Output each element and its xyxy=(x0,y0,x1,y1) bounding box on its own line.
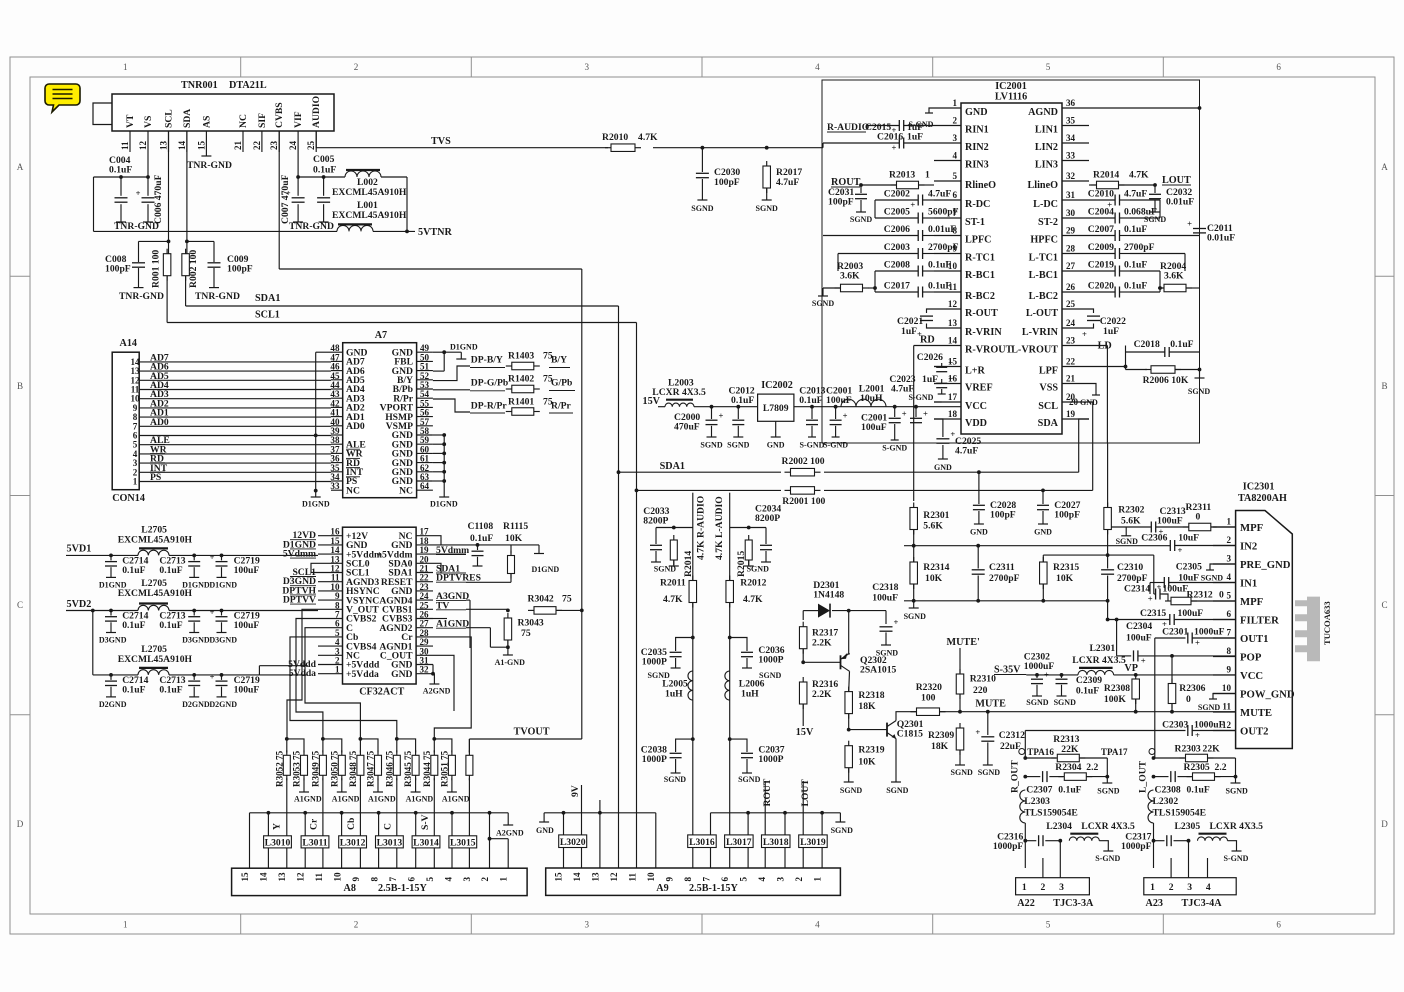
svg-text:DTA21L: DTA21L xyxy=(229,80,267,91)
A7 pin 64 NC xyxy=(417,489,433,491)
svg-text:POP: POP xyxy=(1240,651,1262,663)
net L-AUDIO column xyxy=(729,493,731,581)
svg-text:10: 10 xyxy=(646,872,656,882)
svg-text:A1GND: A1GND xyxy=(368,795,396,804)
wire SCL1 down to A9 pin11 xyxy=(636,490,638,868)
ground SGND on C2313 wire xyxy=(1125,527,1127,536)
svg-text:15: 15 xyxy=(196,140,206,150)
IC2001 pin 23 L-VROUT xyxy=(1062,345,1089,347)
capacitor C2011 0.01uF on right rail xyxy=(1193,228,1206,230)
A7 pin 37 WR xyxy=(331,452,343,454)
svg-text:SDA1: SDA1 xyxy=(660,461,685,472)
svg-text:R2301: R2301 xyxy=(923,510,949,521)
svg-text:+: + xyxy=(136,188,141,198)
resistor R3048 75 xyxy=(359,750,361,755)
svg-text:LOUT: LOUT xyxy=(1162,175,1191,186)
svg-text:9: 9 xyxy=(664,877,674,882)
capacitor C2312 22uF xyxy=(986,710,990,714)
svg-text:TLS159054E: TLS159054E xyxy=(1153,808,1207,819)
A7 pin 42 AD2 xyxy=(331,406,343,408)
svg-text:L-VROUT: L-VROUT xyxy=(1011,345,1058,356)
ground GND at A9 xyxy=(543,813,545,822)
svg-text:100uF: 100uF xyxy=(861,422,887,433)
svg-text:32: 32 xyxy=(1066,171,1076,181)
IC2001 pin 16 VREF xyxy=(934,383,961,385)
svg-text:6: 6 xyxy=(406,877,416,882)
svg-text:MPF: MPF xyxy=(1240,596,1264,608)
svg-text:A23: A23 xyxy=(1146,898,1164,909)
svg-text:SGND: SGND xyxy=(700,441,722,450)
svg-text:TUCOA633: TUCOA633 xyxy=(1322,601,1332,645)
svg-text:22: 22 xyxy=(1066,357,1076,367)
IC2001 pin 9 R-TC1 xyxy=(934,253,961,255)
svg-text:R3042: R3042 xyxy=(528,594,554,605)
svg-text:2: 2 xyxy=(354,920,359,930)
svg-text:1uF: 1uF xyxy=(907,132,923,143)
svg-text:13: 13 xyxy=(159,140,169,150)
CF32ACT pin 29 AGND1 xyxy=(416,645,433,647)
svg-text:5: 5 xyxy=(425,877,435,882)
svg-text:LCXR 4X3.5: LCXR 4X3.5 xyxy=(1210,821,1264,832)
svg-text:10K: 10K xyxy=(505,533,523,544)
svg-text:L3010: L3010 xyxy=(265,837,291,848)
svg-text:6: 6 xyxy=(1276,62,1281,72)
svg-text:C2312: C2312 xyxy=(999,730,1025,741)
svg-text:AUDIO: AUDIO xyxy=(311,95,322,128)
svg-text:R-VRIN: R-VRIN xyxy=(965,327,1002,338)
svg-text:R2306: R2306 xyxy=(1179,683,1205,694)
A7 pin 46 AD6 xyxy=(331,370,343,372)
capacitor C2032 0.01uF xyxy=(1154,185,1156,193)
svg-text:2700pF: 2700pF xyxy=(928,242,959,253)
CF32ACT pin 26 CVBS3 xyxy=(416,618,433,620)
filter L3020 xyxy=(559,835,587,848)
svg-text:0.1uF: 0.1uF xyxy=(1124,260,1147,271)
svg-text:R2012: R2012 xyxy=(740,578,766,589)
svg-text:L3012: L3012 xyxy=(340,837,366,848)
CF32ACT pin 28 Cr xyxy=(416,636,433,638)
svg-text:1uF: 1uF xyxy=(1103,326,1119,337)
CF32ACT pin 11 AGND3 xyxy=(318,581,343,583)
svg-text:5: 5 xyxy=(1226,591,1231,601)
svg-text:5.6K: 5.6K xyxy=(923,521,943,532)
svg-text:R3046 75: R3046 75 xyxy=(384,750,394,787)
svg-text:2.5B-1-15Y: 2.5B-1-15Y xyxy=(689,883,738,894)
svg-text:TNR-GND: TNR-GND xyxy=(195,291,240,302)
svg-text:SGND: SGND xyxy=(886,786,908,795)
svg-text:R-VROUT: R-VROUT xyxy=(965,345,1013,356)
wire A9 pin13 stub up xyxy=(599,800,601,813)
svg-text:R-OUT: R-OUT xyxy=(965,308,998,319)
svg-text:+: + xyxy=(910,200,915,210)
svg-text:L_OUT: L_OUT xyxy=(1138,760,1149,793)
capacitor C2719 100uF xyxy=(221,555,223,560)
IC2001 pin 30 ST-2 xyxy=(1062,217,1089,219)
svg-text:TLS159054E: TLS159054E xyxy=(1024,808,1078,819)
svg-text:+: + xyxy=(1178,545,1183,555)
svg-text:10K: 10K xyxy=(1056,573,1074,584)
svg-text:C2006: C2006 xyxy=(884,224,910,235)
svg-text:S-V: S-V xyxy=(420,814,431,830)
IC2001 pin 7 ST-1 xyxy=(934,217,961,219)
IC2301 pin 5 MPF xyxy=(1213,600,1236,602)
svg-text:10K: 10K xyxy=(925,573,943,584)
svg-text:4: 4 xyxy=(952,151,957,161)
svg-text:24: 24 xyxy=(288,140,298,150)
svg-text:6: 6 xyxy=(720,877,730,882)
svg-text:27: 27 xyxy=(1066,261,1076,271)
svg-text:2SA1015: 2SA1015 xyxy=(860,665,897,676)
svg-text:R3044 75: R3044 75 xyxy=(422,750,432,787)
svg-text:0.1uF: 0.1uF xyxy=(313,165,336,176)
svg-text:R_OUT: R_OUT xyxy=(1009,760,1020,793)
svg-text:A14: A14 xyxy=(120,338,138,349)
svg-text:5: 5 xyxy=(1046,62,1051,72)
svg-text:TJC3-3A: TJC3-3A xyxy=(1053,898,1094,909)
svg-text:10uF: 10uF xyxy=(1178,533,1199,544)
IN2 rail xyxy=(904,545,1168,547)
svg-text:5VTNR: 5VTNR xyxy=(418,227,453,238)
connector A9 2.5B-1-15Y xyxy=(546,868,841,895)
CF32ACT pin 1 +5Vdda xyxy=(318,673,343,675)
svg-text:2.2K: 2.2K xyxy=(812,638,832,649)
svg-text:RlineO: RlineO xyxy=(965,180,996,191)
svg-text:C2309: C2309 xyxy=(1076,675,1102,686)
svg-text:C2303: C2303 xyxy=(1162,719,1188,730)
ground A1GND xyxy=(451,778,453,792)
svg-text:S-GND: S-GND xyxy=(1224,854,1249,863)
svg-text:SCL: SCL xyxy=(164,109,175,128)
IC2001 pin 25 L-OUT xyxy=(1062,308,1089,310)
svg-text:4.7K: 4.7K xyxy=(1129,170,1149,181)
wire down to POP row xyxy=(1116,620,1118,656)
svg-text:R3043: R3043 xyxy=(518,618,544,629)
wire C007 to C005 xyxy=(298,176,324,178)
resistor R3050 75 xyxy=(341,750,343,755)
svg-text:R-BC1: R-BC1 xyxy=(965,270,995,281)
A7 pin 36 RD xyxy=(331,462,343,464)
svg-text:A: A xyxy=(1381,162,1388,172)
svg-text:4.7uF: 4.7uF xyxy=(776,177,799,188)
svg-text:DP-R/Pr: DP-R/Pr xyxy=(471,401,508,412)
svg-text:1000uF: 1000uF xyxy=(1024,661,1055,672)
svg-text:1000pF: 1000pF xyxy=(1121,841,1152,852)
svg-text:S-GND: S-GND xyxy=(800,441,825,450)
A7 pin 40 AD0 xyxy=(331,425,343,427)
resistor R3052 75 xyxy=(286,750,288,755)
svg-text:AGND: AGND xyxy=(1028,107,1058,118)
svg-text:OUT2: OUT2 xyxy=(1240,725,1269,737)
svg-text:SGND: SGND xyxy=(727,441,749,450)
svg-text:33: 33 xyxy=(1066,151,1076,161)
filter L3010 xyxy=(264,836,292,848)
CF32ACT pin 6 C xyxy=(318,627,343,629)
A7 pin 54 R/Pr xyxy=(417,397,433,399)
svg-text:4.7K: 4.7K xyxy=(663,594,683,605)
wire SCL1 from R001 xyxy=(166,276,168,323)
IC2001 pin 17 VCC xyxy=(934,401,961,403)
svg-text:5VD2: 5VD2 xyxy=(67,599,92,610)
svg-text:SGND: SGND xyxy=(1026,698,1048,707)
svg-text:1: 1 xyxy=(123,62,128,72)
svg-text:SGND: SGND xyxy=(1201,574,1223,583)
svg-text:0.1uF: 0.1uF xyxy=(799,395,822,406)
svg-text:8200P: 8200P xyxy=(755,513,780,524)
capacitor C008 100pF xyxy=(139,240,169,242)
svg-text:20: 20 xyxy=(1069,397,1079,407)
wire SDA pin19 down xyxy=(1079,419,1089,472)
svg-text:15V: 15V xyxy=(796,727,814,738)
IC2001 section outer box xyxy=(822,80,1200,443)
wire cap rail left xyxy=(875,199,918,201)
svg-text:L7809: L7809 xyxy=(763,403,789,414)
A7 pin 58 GND xyxy=(417,434,433,436)
svg-text:CF32ACT: CF32ACT xyxy=(359,687,404,698)
svg-text:+: + xyxy=(1195,638,1200,648)
inductor L2705 row3 xyxy=(92,611,94,675)
svg-text:4.7K: 4.7K xyxy=(638,132,658,143)
IC2001 pin 14 R-VROUT xyxy=(934,345,961,347)
svg-text:Cb: Cb xyxy=(346,818,357,830)
svg-text:GND: GND xyxy=(767,441,785,450)
svg-text:470uF: 470uF xyxy=(674,422,700,433)
svg-text:7: 7 xyxy=(388,877,398,882)
svg-text:0: 0 xyxy=(1219,590,1224,601)
svg-text:+5Vdda: +5Vdda xyxy=(346,669,379,680)
svg-text:3.6K: 3.6K xyxy=(840,271,860,282)
svg-text:R2015: R2015 xyxy=(736,551,747,577)
svg-text:1: 1 xyxy=(1226,517,1231,527)
svg-text:+: + xyxy=(210,671,215,681)
pin 21 VSS to GND xyxy=(1089,384,1096,396)
CF32ACT pin 18 GND xyxy=(416,544,433,546)
svg-text:C2020: C2020 xyxy=(1088,281,1114,292)
resistor R2301 5.6K xyxy=(913,503,915,508)
svg-text:GND: GND xyxy=(934,463,952,472)
resistor R3044 75 xyxy=(433,750,435,755)
svg-text:LOUT: LOUT xyxy=(800,779,811,807)
A7 pin 59 GND xyxy=(417,443,433,445)
IC2001 pin 12 R-OUT xyxy=(934,308,961,310)
IC2001 LV1116 body xyxy=(961,103,1062,434)
svg-text:RIN2: RIN2 xyxy=(965,142,989,153)
wire 5Vddd branch xyxy=(259,674,307,676)
svg-text:G/Pb: G/Pb xyxy=(551,378,572,389)
IC2001 pin 15 L+R xyxy=(934,366,961,368)
svg-text:2: 2 xyxy=(952,116,957,126)
svg-text:100uF: 100uF xyxy=(234,620,260,631)
wire SDA1 down to A9 pin12 xyxy=(618,472,620,868)
svg-text:SIF: SIF xyxy=(257,113,268,128)
svg-text:ST-1: ST-1 xyxy=(965,217,985,228)
svg-text:S-35V: S-35V xyxy=(994,665,1021,676)
svg-text:3: 3 xyxy=(952,133,957,143)
wire SDA1 rail xyxy=(617,470,621,474)
resistor R2318 18K xyxy=(848,687,850,692)
svg-text:100pF: 100pF xyxy=(105,264,131,275)
svg-text:A1GND: A1GND xyxy=(332,795,360,804)
svg-text:SGND: SGND xyxy=(691,204,713,213)
svg-text:1: 1 xyxy=(952,98,957,108)
svg-text:VP: VP xyxy=(1124,663,1138,674)
svg-text:L-VRIN: L-VRIN xyxy=(1022,327,1059,338)
svg-text:100pF: 100pF xyxy=(828,197,854,208)
svg-text:AD0: AD0 xyxy=(346,421,365,432)
svg-text:VS: VS xyxy=(143,116,154,128)
svg-text:POW_GND: POW_GND xyxy=(1240,688,1295,700)
svg-text:TJC3-4A: TJC3-4A xyxy=(1182,898,1223,909)
svg-text:S-GND: S-GND xyxy=(1095,854,1120,863)
svg-text:100uF: 100uF xyxy=(826,395,852,406)
resistor R2306 0 xyxy=(1171,656,1173,684)
A7 pin 47 AD7 xyxy=(331,360,343,362)
svg-text:4.7uF: 4.7uF xyxy=(891,384,914,395)
filter L3014 xyxy=(412,836,440,848)
svg-text:EXCML45A910H: EXCML45A910H xyxy=(118,535,193,546)
filter L3011 xyxy=(301,836,329,848)
svg-text:29: 29 xyxy=(1066,226,1076,236)
svg-text:R2310: R2310 xyxy=(970,674,996,685)
svg-text:L3015: L3015 xyxy=(450,837,476,848)
CF32ACT pin 14 +5Vddm xyxy=(318,553,343,555)
A9 ground bus right xyxy=(711,812,841,814)
second rail wire y=555 xyxy=(1043,554,1154,556)
svg-text:NC: NC xyxy=(238,114,249,128)
svg-text:C006 470uF: C006 470uF xyxy=(153,174,164,224)
A7 pin 50 FBL xyxy=(417,360,433,362)
svg-text:L3013: L3013 xyxy=(377,837,403,848)
svg-text:25: 25 xyxy=(1066,299,1076,309)
svg-text:LIN3: LIN3 xyxy=(1035,160,1058,171)
svg-text:FILTER: FILTER xyxy=(1240,614,1279,626)
svg-text:R001 100: R001 100 xyxy=(151,250,162,288)
svg-text:LIN2: LIN2 xyxy=(1035,142,1058,153)
svg-text:13: 13 xyxy=(590,872,600,882)
svg-text:C1108: C1108 xyxy=(468,521,494,532)
resistor R3053 75 xyxy=(303,750,305,755)
svg-text:SGND: SGND xyxy=(850,215,872,224)
wire A8 pin1-2 xyxy=(488,837,492,841)
svg-text:IC2301: IC2301 xyxy=(1243,482,1275,493)
IC2301 pin 4 IN1 xyxy=(1213,582,1236,584)
resistor R2001 100 xyxy=(785,489,791,491)
svg-text:R1401: R1401 xyxy=(508,397,534,408)
svg-text:LV1116: LV1116 xyxy=(995,92,1027,103)
svg-text:C2002: C2002 xyxy=(884,189,910,200)
svg-text:OUT1: OUT1 xyxy=(1240,633,1269,645)
IC2301 pin 3 PRE_GND xyxy=(1213,563,1236,565)
svg-text:+: + xyxy=(902,409,907,419)
svg-text:Y: Y xyxy=(271,823,282,830)
svg-text:SGND: SGND xyxy=(1116,537,1138,546)
svg-text:1: 1 xyxy=(813,877,823,882)
svg-text:100uF: 100uF xyxy=(234,565,260,576)
svg-text:SGND: SGND xyxy=(951,768,973,777)
wire SCL/SDA to R001/R002 xyxy=(168,131,170,254)
svg-text:10uH: 10uH xyxy=(860,393,883,404)
resistor R2309 18K xyxy=(959,723,961,728)
svg-text:A7: A7 xyxy=(375,330,387,341)
svg-text:3: 3 xyxy=(1226,554,1231,564)
svg-text:12: 12 xyxy=(295,872,305,882)
wire TV row to R3042 xyxy=(466,608,508,610)
IC2001 pin 33 LIN3 xyxy=(1062,160,1089,162)
svg-text:MUTE': MUTE' xyxy=(947,637,980,648)
resistor R2302 5.6K xyxy=(1107,503,1109,508)
svg-text:14: 14 xyxy=(948,336,958,346)
svg-text:18K: 18K xyxy=(931,741,949,752)
A7 pin 60 GND xyxy=(417,452,433,454)
svg-text:14: 14 xyxy=(572,872,582,882)
svg-text:+: + xyxy=(719,410,724,420)
svg-text:100K: 100K xyxy=(1104,694,1126,705)
svg-text:100uF: 100uF xyxy=(872,593,898,604)
A7 pin 41 AD1 xyxy=(331,416,343,418)
net R-AUDIO column xyxy=(692,493,694,581)
CF32ACT pin 9 VSYNC xyxy=(318,599,343,601)
svg-text:D3GND: D3GND xyxy=(182,636,210,645)
inductor L002 EXCML45A910H xyxy=(324,176,345,178)
svg-text:8200P: 8200P xyxy=(643,516,668,527)
svg-text:GND: GND xyxy=(970,528,988,537)
svg-text:9: 9 xyxy=(351,877,361,882)
svg-text:0.1uF: 0.1uF xyxy=(159,620,182,631)
svg-text:0.1uF: 0.1uF xyxy=(928,260,951,271)
svg-text:C2301: C2301 xyxy=(1162,627,1188,638)
svg-text:LPFC: LPFC xyxy=(965,235,992,246)
CF32ACT pin 13 SCL0 xyxy=(318,562,343,564)
svg-text:1: 1 xyxy=(335,665,340,675)
resistor R2314 10K xyxy=(913,557,915,562)
svg-text:L2305: L2305 xyxy=(1175,821,1201,832)
A7 left GND rail xyxy=(316,351,331,353)
ground A1GND xyxy=(303,778,305,792)
A7 pin 53 B/Pb xyxy=(417,388,433,390)
svg-text:D: D xyxy=(17,819,24,829)
svg-text:1000P: 1000P xyxy=(642,754,667,765)
ground A1GND xyxy=(377,778,379,792)
svg-text:0.1uF: 0.1uF xyxy=(122,620,145,631)
IC2001 pin 36 AGND xyxy=(1062,107,1089,109)
capacitor C2035 1000P xyxy=(691,636,695,640)
svg-text:R2309: R2309 xyxy=(928,730,954,741)
svg-text:R3053 75: R3053 75 xyxy=(292,750,302,787)
svg-text:LlineO: LlineO xyxy=(1028,180,1059,191)
svg-text:TVOUT: TVOUT xyxy=(514,727,550,738)
IC2001 pin 11 R-BC2 xyxy=(934,291,961,293)
svg-text:C2017: C2017 xyxy=(884,281,910,292)
svg-text:L3011: L3011 xyxy=(302,837,327,848)
svg-text:13: 13 xyxy=(277,872,287,882)
svg-text:VCC: VCC xyxy=(1240,670,1263,682)
svg-text:6: 6 xyxy=(1276,920,1281,930)
svg-text:A1GND: A1GND xyxy=(406,795,434,804)
svg-text:11: 11 xyxy=(1222,702,1231,712)
CF32ACT pin 15 GND xyxy=(318,544,343,546)
IC2001 pin 18 VDD xyxy=(934,418,961,420)
svg-text:L3016: L3016 xyxy=(689,837,715,848)
svg-text:AD0: AD0 xyxy=(150,417,169,428)
svg-text:18: 18 xyxy=(948,409,958,419)
svg-text:34: 34 xyxy=(1066,133,1076,143)
CF32ACT pin 2 +5Vddd xyxy=(318,664,343,666)
svg-text:R3047 75: R3047 75 xyxy=(366,750,376,787)
svg-text:D2GND: D2GND xyxy=(182,700,210,709)
svg-text:A: A xyxy=(17,162,24,172)
svg-text:100pF: 100pF xyxy=(990,510,1016,521)
IC2001 pin 32 LlineO xyxy=(1062,180,1089,182)
wire SDA1 from R002 xyxy=(185,276,187,307)
